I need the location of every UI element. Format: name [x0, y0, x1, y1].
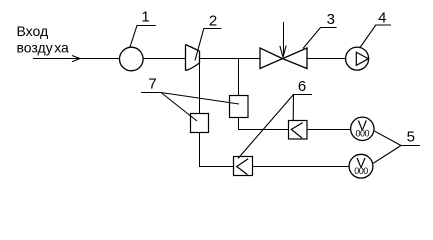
filter 1 (circle) [120, 47, 144, 71]
wire: square A down and right to lower relay box [200, 133, 234, 167]
flow arrow on inlet pipe [72, 56, 80, 62]
leader lines for label 7 [141, 93, 239, 122]
chevron in upper relay box [291, 123, 302, 138]
leader lines for label 6 [238, 95, 312, 159]
flow indicator 4 (circle with triangle) [346, 47, 369, 70]
leader line for label 2 [195, 29, 221, 61]
wire: reducer 2 down to square A [199, 63, 201, 114]
leader line for label 1 [130, 26, 156, 48]
wire: filter 1 to reducer 2 [143, 58, 185, 60]
wire: square B down and right to upper relay box [239, 118, 289, 130]
lower gauge 5 (circle V) [349, 154, 373, 178]
wire: upper relay box to upper gauge 5 [307, 129, 351, 131]
lower relay box with chevron (device 6) [234, 157, 253, 176]
pressure reducer 2 [186, 45, 200, 71]
node: air inlet label "Вход воздуха" [17, 23, 70, 56]
leader line for label 4 [360, 25, 391, 48]
svg-text:4: 4 [378, 10, 386, 27]
valve 3 actuator arrow stem [283, 22, 285, 56]
wire: reducer 2 to valve 3 [200, 58, 261, 60]
upper gauge 5 (circle V) [351, 117, 374, 140]
triangle inside indicator 4 [356, 52, 368, 65]
svg-text:5: 5 [407, 128, 415, 145]
svg-text:3: 3 [327, 11, 335, 28]
svg-text:1: 1 [141, 9, 149, 26]
chevron in lower relay box [237, 159, 249, 175]
upper relay box with chevron (device 6) [289, 121, 308, 140]
leader line for label 3 [303, 28, 337, 49]
throttle square B (device 7) [230, 96, 249, 118]
wire: valve 3 to flow indicator 4 [307, 58, 346, 60]
svg-text:Вход: Вход [17, 23, 49, 39]
svg-text:6: 6 [298, 78, 306, 95]
leader lines for label 5 [373, 131, 420, 164]
svg-text:воздуха: воздуха [17, 40, 70, 56]
wire: inlet pipe to filter 1 [33, 58, 120, 60]
svg-text:000: 000 [356, 128, 370, 138]
wire: branch down to square B [238, 59, 240, 96]
throttle square A (device 7) [191, 114, 209, 133]
wire: lower relay box to lower gauge 5 [253, 166, 350, 168]
svg-text:2: 2 [209, 12, 217, 29]
svg-text:000: 000 [354, 166, 368, 176]
valve 3 actuator arrowhead [280, 46, 286, 58]
control valve 3 (bowtie) [260, 48, 307, 69]
svg-text:7: 7 [148, 75, 156, 92]
